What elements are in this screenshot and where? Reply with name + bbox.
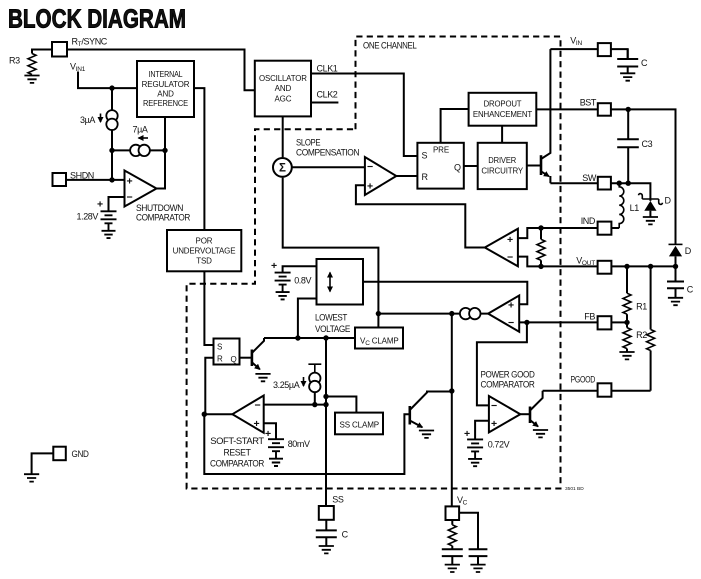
wire soft start output to bottom NPN base <box>204 414 409 474</box>
wire shutdown comparator minus input to 1.28V <box>109 197 125 211</box>
svg-text:BLOCK DIAGRAM: BLOCK DIAGRAM <box>8 4 186 34</box>
wire IND pin <box>611 227 619 229</box>
svg-text:+: + <box>127 176 133 188</box>
svg-text:PGOOD: PGOOD <box>571 375 596 385</box>
diode D schottky at SW <box>639 194 672 217</box>
ground bottom NPN emitter <box>419 431 434 438</box>
wire BST to boost diode <box>611 109 676 244</box>
svg-text:REGULATOR: REGULATOR <box>142 80 190 89</box>
svg-text:ENHANCEMENT: ENHANCEMENT <box>473 110 532 119</box>
pin RT/SYNC <box>52 37 108 57</box>
resistor current sense <box>537 228 545 266</box>
current source 3.25uA <box>273 364 321 404</box>
svg-text:PRE: PRE <box>433 146 449 155</box>
svg-text:S: S <box>422 151 428 161</box>
svg-text:D: D <box>685 246 692 256</box>
ground C at VIN <box>620 73 635 80</box>
svg-text:R1: R1 <box>636 302 647 312</box>
svg-text:R: R <box>217 355 223 364</box>
svg-text:3501 BD: 3501 BD <box>565 486 584 492</box>
svg-text:LOWEST: LOWEST <box>315 313 348 323</box>
svg-text:−: − <box>508 317 514 329</box>
svg-text:+: + <box>271 260 277 272</box>
wire IND to sense resistor <box>541 227 598 229</box>
wire VC rail <box>451 314 453 507</box>
wire sigma down to VC clamp node <box>283 178 379 328</box>
wire power good output to NPN base <box>520 413 530 415</box>
svg-text:COMPARATOR: COMPARATOR <box>136 213 191 223</box>
battery 1.28V <box>77 199 117 239</box>
svg-text:DRIVER: DRIVER <box>488 156 516 165</box>
svg-text:CLK1: CLK1 <box>317 64 338 74</box>
transistor PGOOD NPN <box>530 391 543 427</box>
battery 0.8V <box>271 260 312 299</box>
arrow 3uA <box>80 114 101 126</box>
svg-text:C3: C3 <box>642 139 653 149</box>
latch S-R small <box>214 339 240 365</box>
ground R2 <box>619 352 634 359</box>
block INTERNAL REGULATOR AND REFERENCE <box>137 61 194 117</box>
wire CLK2 stub <box>311 102 338 104</box>
pin VIN <box>570 36 611 57</box>
capacitor C at VIN <box>617 49 648 73</box>
resistor R3 <box>9 54 36 75</box>
transistor power NPN <box>541 49 550 183</box>
wire POR to S input of latch <box>204 271 213 345</box>
svg-text:CIRCUITRY: CIRCUITRY <box>481 166 524 175</box>
svg-text:SLOPE: SLOPE <box>296 138 321 148</box>
capacitor VC left branch <box>442 549 463 564</box>
ground below R3 <box>24 76 39 83</box>
wire regulator to POR <box>194 88 204 230</box>
svg-text:TSD: TSD <box>196 257 212 266</box>
svg-text:SOFT-START: SOFT-START <box>210 436 264 446</box>
ground latch NPN emitter <box>255 374 270 381</box>
pin VOUT <box>576 256 611 274</box>
capacitor C at VOUT <box>667 266 694 297</box>
svg-text:COMPENSATION: COMPENSATION <box>296 148 359 158</box>
wire Q output to driver <box>464 165 478 167</box>
battery 80mV <box>265 428 310 466</box>
wire SS clamp tap <box>326 397 356 413</box>
svg-text:0.72V: 0.72V <box>488 440 510 450</box>
svg-text:VOLTAGE: VOLTAGE <box>315 324 350 334</box>
gm stage circles <box>460 308 481 319</box>
wire PGOOD to pullup <box>611 390 650 392</box>
svg-text:C: C <box>687 285 694 295</box>
svg-text:UNDERVOLTAGE: UNDERVOLTAGE <box>173 247 236 256</box>
op-amp soft start reset comparator <box>210 396 265 469</box>
wire 7uA rail <box>112 149 165 151</box>
capacitor VC right branch <box>469 549 488 564</box>
resistor R1 <box>623 266 647 322</box>
latch PRE S-R main <box>417 143 463 189</box>
wire VIN1 down through current sources to SHDN node <box>111 88 113 180</box>
svg-text:COMPARATOR: COMPARATOR <box>210 459 265 469</box>
block DROPOUT ENHANCEMENT <box>469 93 537 126</box>
wire soft start minus input rail <box>264 404 326 406</box>
wire R input from soft start comparator <box>205 358 213 415</box>
svg-text:IND: IND <box>581 216 596 226</box>
diode D boost <box>669 244 692 266</box>
svg-text:R: R <box>422 172 429 182</box>
svg-text:ONE CHANNEL: ONE CHANNEL <box>363 41 417 51</box>
wire PGOOD rail <box>543 390 598 392</box>
svg-text:−: − <box>127 192 133 204</box>
pin GND <box>53 447 89 461</box>
pin FB <box>584 312 611 330</box>
block SS CLAMP <box>335 413 383 435</box>
resistor PGOOD pullup <box>647 266 655 390</box>
block OSCILLATOR AND AGC <box>255 61 311 117</box>
svg-text:GND: GND <box>72 449 90 459</box>
svg-text:POR: POR <box>196 237 213 246</box>
op-amp power good comparator <box>481 370 536 433</box>
wire SW to schottky diode <box>611 183 651 201</box>
wire VIN to capacitor C <box>611 49 628 59</box>
battery 0.72V <box>464 428 510 466</box>
wire soft start plus to 80mV <box>264 423 276 439</box>
wire FB node down to power good comparator minus <box>477 322 527 405</box>
wire VIN1 to internal regulator <box>78 72 137 89</box>
svg-text:+: + <box>265 428 271 440</box>
svg-text:L1: L1 <box>630 203 640 213</box>
wire collector rail to VC clamp <box>264 337 355 339</box>
wire 0.8V battery to lowest voltage box <box>283 266 317 272</box>
wire VOUT rail <box>541 265 676 267</box>
svg-text:C: C <box>641 58 648 68</box>
svg-text:R3: R3 <box>9 56 20 66</box>
svg-text:REFERENCE: REFERENCE <box>143 99 188 108</box>
svg-text:S: S <box>217 343 222 352</box>
svg-text:−: − <box>255 400 261 412</box>
op-amp current comparator <box>485 229 518 267</box>
svg-text:C: C <box>342 530 349 540</box>
pin SW <box>582 173 611 190</box>
svg-text:RT/SYNC: RT/SYNC <box>72 37 108 49</box>
svg-text:AGC: AGC <box>274 94 291 103</box>
dashed outline ONE CHANNEL <box>187 37 585 493</box>
svg-text:DROPOUT: DROPOUT <box>484 100 522 109</box>
svg-text:3µA: 3µA <box>80 115 95 125</box>
inductor L1 <box>619 183 639 228</box>
wire lowest voltage to soft start rail <box>298 299 317 339</box>
wire oscillator to sigma <box>282 116 284 157</box>
ground VC right branch <box>470 565 485 572</box>
summer sigma slope compensation <box>273 138 359 177</box>
pin SS <box>319 495 344 520</box>
wire driver to power transistor base <box>527 165 541 167</box>
block lowest voltage select <box>315 259 363 334</box>
svg-text:−: − <box>367 161 373 173</box>
wire lowest voltage output to error amp plus <box>330 282 527 304</box>
capacitor C3 <box>617 109 652 183</box>
ground C at VOUT <box>668 298 683 305</box>
svg-text:+: + <box>367 181 373 193</box>
svg-text:+: + <box>508 300 514 312</box>
svg-text:−: − <box>507 252 513 264</box>
wire current comparator output to slope amp plus <box>356 185 485 247</box>
wire current comparator plus to sense resistor <box>518 228 541 238</box>
svg-text:Q: Q <box>454 163 461 173</box>
wire Q to transistor base <box>240 357 252 359</box>
svg-text:3.25µA: 3.25µA <box>273 380 300 390</box>
svg-text:+: + <box>464 428 470 440</box>
block VC CLAMP <box>355 328 403 349</box>
ground schottky diode <box>643 217 658 224</box>
block POR UNDERVOLTAGE TSD <box>167 230 241 271</box>
svg-text:AND: AND <box>157 90 174 99</box>
pin IND <box>581 216 612 235</box>
svg-text:+: + <box>507 234 513 246</box>
pin PGOOD <box>571 375 612 397</box>
svg-text:1.28V: 1.28V <box>77 212 99 222</box>
wire BST rail <box>536 108 598 110</box>
block DRIVER CIRCUITRY <box>478 143 527 189</box>
wire error amp output to VC clamp node <box>378 313 488 315</box>
resistor R2 <box>623 322 647 351</box>
svg-text:OSCILLATOR: OSCILLATOR <box>259 74 307 83</box>
svg-text:RESET: RESET <box>224 448 252 458</box>
wire FB to divider <box>611 321 627 323</box>
wire error amp minus to FB <box>519 321 597 323</box>
ground GND pin <box>24 474 39 481</box>
svg-text:Σ: Σ <box>279 163 286 175</box>
op-amp shutdown comparator <box>125 171 191 223</box>
svg-text:POWER GOOD: POWER GOOD <box>481 370 536 380</box>
wire SHDN to comparator <box>66 179 125 181</box>
wire RT/SYNC pin to R3 <box>32 50 52 54</box>
svg-text:+: + <box>491 418 497 430</box>
svg-text:COMPARATOR: COMPARATOR <box>481 380 536 390</box>
wire current comparator minus to VOUT rail <box>518 257 541 267</box>
wire power good plus to 0.72V <box>475 421 489 440</box>
svg-text:INTERNAL: INTERNAL <box>149 70 184 79</box>
svg-text:SS CLAMP: SS CLAMP <box>340 421 380 430</box>
wire VIN pin <box>550 48 597 50</box>
wire slope amp to R input <box>396 175 417 177</box>
svg-text:80mV: 80mV <box>288 439 310 449</box>
wire PRE input to dropout enhancement <box>441 109 469 143</box>
wire dropout to driver <box>501 126 503 143</box>
wire VC to right capacitor <box>459 513 478 550</box>
resistor VC compensation <box>448 520 456 549</box>
transistor bottom NPN <box>410 392 452 428</box>
current source 3uA <box>106 110 117 130</box>
svg-text:FB: FB <box>584 312 595 322</box>
svg-text:D: D <box>665 196 672 206</box>
svg-text:CLK2: CLK2 <box>317 90 338 100</box>
op-amp slope compensation amp <box>365 157 396 195</box>
wire SS rail <box>325 338 327 506</box>
current source 7uA <box>130 145 150 156</box>
wire RT/SYNC pin to oscillator <box>67 50 255 91</box>
svg-text:AND: AND <box>275 84 292 93</box>
svg-text:0.8V: 0.8V <box>294 276 311 286</box>
pin VC <box>446 495 468 520</box>
transistor latch NPN <box>252 338 264 369</box>
pin BST <box>580 97 611 115</box>
wire CLK1 to S input <box>311 74 417 157</box>
arrow 7uA <box>133 125 149 139</box>
ground PGOOD NPN emitter <box>533 430 548 437</box>
op-amp error amplifier <box>488 296 519 332</box>
pin SHDN <box>53 171 94 187</box>
capacitor C at SS <box>316 520 349 546</box>
wire reference output / shutdown comparator output <box>157 117 166 189</box>
wire SW pin left <box>550 182 597 184</box>
svg-text:7µA: 7µA <box>133 125 148 135</box>
svg-text:BST: BST <box>580 97 597 107</box>
ground VC left branch <box>445 565 460 572</box>
svg-text:SS: SS <box>332 495 344 505</box>
svg-text:−: − <box>491 400 497 412</box>
svg-text:SW: SW <box>582 173 597 183</box>
svg-text:+: + <box>254 418 260 430</box>
ground C at SS <box>319 546 334 553</box>
svg-text:Q: Q <box>231 355 237 364</box>
svg-text:SHUTDOWN: SHUTDOWN <box>136 203 183 213</box>
wire GND to ground <box>32 453 54 474</box>
wire sigma to slope amp minus <box>292 166 365 168</box>
svg-text:+: + <box>97 199 103 211</box>
